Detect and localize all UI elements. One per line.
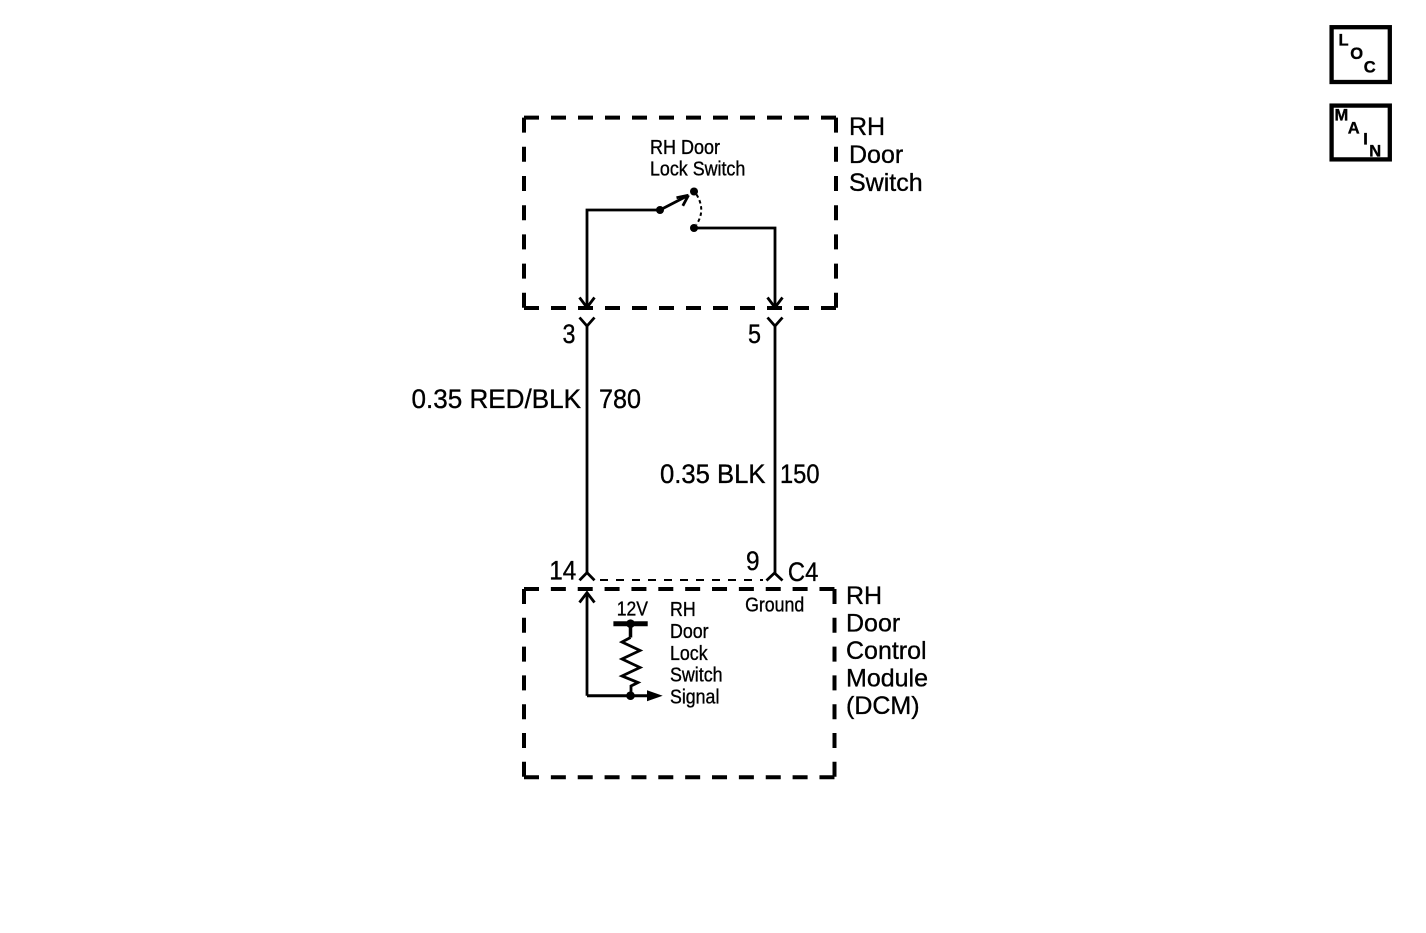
label RH Door Control Module (DCM)	[846, 582, 928, 720]
MAIN reference box	[1332, 106, 1390, 160]
svg-text:3: 3	[563, 319, 576, 349]
junction dot signal node	[626, 691, 635, 700]
signal wire with up arrow (pin 14 internal)	[586, 594, 589, 696]
arrowhead into border at pin 5	[768, 298, 783, 308]
svg-text:Signal: Signal	[670, 686, 719, 708]
label RH Door Lock Switch Signal	[670, 599, 723, 708]
svg-text:RH: RH	[849, 113, 885, 141]
svg-text:9: 9	[746, 546, 760, 576]
svg-text:780: 780	[599, 384, 641, 414]
svg-text:C4: C4	[788, 557, 818, 587]
svg-text:RH: RH	[670, 599, 696, 621]
svg-text:Switch: Switch	[670, 665, 723, 687]
svg-text:0.35 BLK: 0.35 BLK	[660, 459, 766, 489]
svg-text:Module: Module	[846, 665, 928, 693]
resistor R1 zigzag	[622, 638, 640, 696]
connector pin 5 (female Y)	[768, 318, 783, 327]
12V supply bar	[613, 621, 647, 626]
label RH Door Lock Switch (inside box)	[650, 137, 745, 181]
svg-text:L: L	[1339, 32, 1349, 50]
junction dot on 12V bar	[626, 619, 635, 628]
switch S1 common wire	[587, 210, 660, 308]
arrowhead into border at pin 3	[580, 298, 595, 308]
svg-text:A: A	[1348, 119, 1360, 137]
svg-text:12V: 12V	[617, 599, 649, 621]
svg-text:Ground: Ground	[745, 595, 804, 617]
svg-text:(DCM): (DCM)	[846, 692, 920, 720]
switch S1 lower contact dot	[690, 224, 698, 232]
label RH Door Switch	[849, 113, 923, 197]
svg-text:0.35 RED/BLK: 0.35 RED/BLK	[412, 384, 582, 414]
svg-text:Door: Door	[670, 621, 709, 643]
svg-text:Door: Door	[849, 141, 903, 169]
switch S1 dashed travel arc	[697, 195, 702, 225]
wire from lower contact to pin 5	[697, 228, 775, 308]
arrowhead up	[580, 593, 595, 603]
wire pin3 to pin14	[586, 326, 589, 573]
thin dashed connector line	[600, 579, 763, 581]
box RH Door Control Module (dashed)	[524, 589, 835, 777]
switch S1 top contact dot	[690, 188, 698, 196]
svg-text:Control: Control	[846, 637, 927, 665]
LOC reference box	[1332, 27, 1390, 82]
svg-text:Lock: Lock	[670, 643, 708, 665]
svg-text:Lock Switch: Lock Switch	[650, 159, 745, 181]
MAIN letters	[1335, 106, 1382, 160]
svg-text:Switch: Switch	[849, 169, 923, 197]
connector pin 14 (male lambda)	[580, 573, 595, 581]
svg-text:N: N	[1369, 143, 1381, 161]
signal arrowhead (filled)	[647, 690, 663, 701]
connector pin 3 (female Y)	[580, 318, 595, 327]
LOC letters	[1339, 32, 1376, 77]
svg-text:14: 14	[549, 556, 576, 586]
svg-text:RH: RH	[846, 582, 882, 610]
svg-text:M: M	[1335, 106, 1349, 124]
box RH Door Switch (dashed)	[524, 118, 836, 308]
signal wire horizontal	[587, 694, 647, 697]
svg-text:O: O	[1350, 45, 1363, 63]
switch S1 throw arm with arrowhead	[660, 196, 687, 210]
connector pin 9 (male lambda)	[767, 573, 783, 581]
svg-text:5: 5	[748, 319, 761, 349]
svg-text:150: 150	[780, 459, 820, 489]
switch S1 common pole dot	[656, 206, 664, 214]
svg-text:Door: Door	[846, 610, 900, 638]
resistor R1 lead	[629, 624, 633, 638]
wire pin5 to pin9	[774, 326, 777, 573]
svg-text:RH Door: RH Door	[650, 137, 720, 159]
svg-text:I: I	[1363, 131, 1368, 149]
svg-text:C: C	[1364, 59, 1376, 77]
